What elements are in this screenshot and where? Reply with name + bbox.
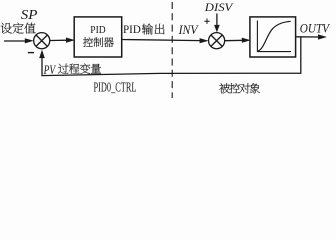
plus sign at INV input [204,19,209,24]
response curve [258,21,291,51]
svg-text:PID: PID [123,24,141,36]
curve axes [257,21,291,52]
svg-text:OUTV: OUTV [300,22,330,36]
label 输出 (output) [142,24,165,35]
arrowhead OUTV output [318,34,327,39]
svg-text:INV: INV [178,23,199,37]
svg-text:PID: PID [90,24,105,36]
arrowhead PV feedback into summing junction 1 [39,50,45,59]
label 被控对象 (controlled object) [219,83,260,93]
wire process output OUTV [296,36,320,38]
summing junction 2 (INV + DISV) [209,33,225,49]
svg-text:SP: SP [21,7,38,22]
arrowhead into summing junction 2 [200,38,209,43]
block U2: controlled process (with response curve) [250,17,296,57]
minus sign at PV input [28,52,34,54]
summing junction 1 (SP - PV) [34,33,50,49]
wire DISV drop [216,14,218,26]
wire summing junction 2 to process block [225,39,244,41]
arrowhead into PID block [66,38,75,43]
block U1: PID controller [74,17,122,57]
wire PID output to summing junction 2 [122,40,202,41]
label 控制器 (block line 2) [83,37,114,47]
svg-text:PID0_CTRL: PID0_CTRL [94,79,137,94]
label 设定值 (setpoint) [1,23,36,34]
wire summing junction 1 to PID block [50,39,68,41]
wire SP input [4,40,26,42]
label 过程变量 (process variable) [58,63,101,73]
arrowhead DISV into summing junction 2 [214,25,220,33]
wire PV feedback [42,37,301,76]
dashed boundary line [171,0,173,98]
arrowhead into summing junction 1 [25,38,34,43]
svg-text:DISV: DISV [204,0,234,14]
svg-text:PV: PV [43,63,57,77]
arrowhead into process block [242,38,251,43]
